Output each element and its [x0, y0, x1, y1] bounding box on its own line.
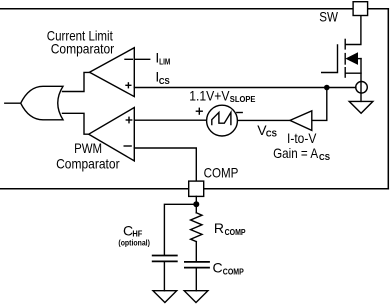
- transistor MOSFET gate plate: [322, 45, 338, 73]
- node junction dot on ICS rail: [324, 85, 330, 91]
- label RCOMP: [214, 220, 246, 237]
- pin SW square: [353, 2, 368, 16]
- wire branch from junction down to I-to-V input: [312, 88, 327, 121]
- wire VCS from I-to-V output to slope source: [237, 119, 290, 121]
- current limit comparator plus sign: [126, 83, 131, 88]
- pwm comparator plus sign: [126, 117, 131, 122]
- svg-text:CS: CS: [319, 153, 331, 162]
- IC boundary right border: [387, 9, 389, 189]
- node junction dot below COMP: [193, 201, 199, 207]
- ground under CHF: [153, 291, 177, 303]
- slope source minus terminal sign: [237, 112, 242, 114]
- current sense bubble: [356, 82, 368, 94]
- svg-text:1.1V+V: 1.1V+V: [189, 88, 230, 104]
- resistor RCOMP: [191, 213, 202, 242]
- label PWM Comparator: [56, 140, 120, 172]
- wire OR lower input from PWM comparator output: [63, 113, 89, 134]
- svg-text:COMP: COMP: [223, 267, 245, 276]
- svg-text:CS: CS: [266, 130, 278, 139]
- svg-text:C: C: [213, 259, 223, 275]
- svg-text:Gain = A: Gain = A: [273, 145, 319, 161]
- svg-text:(optional): (optional): [118, 239, 150, 248]
- capacitor CHF: [153, 256, 177, 262]
- wire RCOMP to CCOMP: [195, 242, 197, 262]
- wire ILIM input stub: [134, 58, 149, 60]
- svg-text:SLOPE: SLOPE: [230, 95, 256, 104]
- svg-text:I-to-V: I-to-V: [287, 130, 317, 146]
- svg-text:CS: CS: [159, 77, 171, 86]
- label 1.1V+VSLOPE: [189, 88, 256, 104]
- svg-text:R: R: [214, 220, 224, 236]
- pwm comparator: [89, 108, 135, 161]
- wire below COMP pin: [195, 196, 197, 212]
- svg-text:LIM: LIM: [159, 58, 170, 67]
- wire CHF to ground: [163, 262, 165, 290]
- label Gain = ACS: [273, 145, 331, 162]
- label ICS: [155, 68, 170, 86]
- label VCS: [257, 122, 277, 138]
- wire SW pin to MOSFET drain: [345, 16, 361, 45]
- wire MOSFET source down through sense to ground: [345, 59, 361, 102]
- ground under MOSFET source: [349, 101, 373, 113]
- or gate: [21, 86, 63, 120]
- wire CCOMP to ground: [195, 268, 197, 290]
- IC boundary bottom border: [0, 188, 388, 190]
- svg-text:SW: SW: [319, 9, 338, 25]
- label CHF optional: [118, 223, 150, 248]
- transistor MOSFET channel segments: [344, 39, 346, 77]
- label CCOMP: [213, 259, 245, 276]
- current limit comparator: [90, 48, 135, 97]
- svg-text:PWM: PWM: [74, 140, 102, 156]
- wire OR upper input from current limit comparator output: [63, 72, 90, 91]
- current limit comparator minus sign: [125, 58, 132, 60]
- label Current Limit Comparator: [47, 28, 115, 57]
- label ILIM: [155, 49, 170, 66]
- wire OR gate output stub: [5, 102, 21, 104]
- svg-text:Comparator: Comparator: [51, 41, 115, 57]
- op-amp I-to-V converter: [290, 111, 312, 131]
- svg-text:Comparator: Comparator: [56, 156, 120, 172]
- svg-text:COMP: COMP: [225, 228, 247, 237]
- svg-text:HF: HF: [132, 230, 142, 239]
- wire ICS rail to MOSFET source sense: [134, 87, 356, 89]
- wire PWM comparator plus input to slope source: [134, 119, 206, 121]
- slope source plus terminal sign: [196, 108, 202, 114]
- slope compensation source 1.1V+VSLOPE: [207, 105, 238, 136]
- capacitor CCOMP: [185, 262, 209, 268]
- pwm comparator minus sign: [124, 145, 131, 147]
- wire branch to CHF: [164, 204, 196, 254]
- IC boundary top border: [0, 8, 388, 10]
- svg-text:COMP: COMP: [204, 165, 239, 181]
- sawtooth waveform inside source: [212, 112, 231, 124]
- transistor MOSFET body arrow: [347, 53, 357, 63]
- wire MOSFET body to source rail: [357, 58, 361, 60]
- ground under CCOMP: [184, 291, 208, 303]
- pin COMP square: [189, 181, 204, 196]
- wire PWM comparator minus input to COMP pin: [134, 148, 196, 181]
